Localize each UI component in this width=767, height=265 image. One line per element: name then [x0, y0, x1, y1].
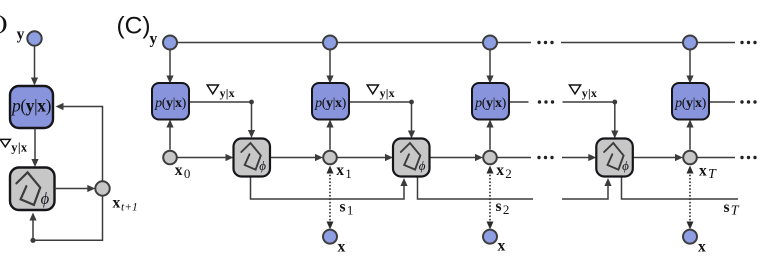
svg-text:x: x: [698, 238, 706, 255]
svg-text:p(y|x): p(y|x): [674, 96, 707, 111]
svg-text:xT: xT: [699, 163, 717, 183]
svg-text:y|x: y|x: [11, 141, 28, 155]
svg-text:y|x: y|x: [582, 86, 597, 100]
svg-text:p(y|x): p(y|x): [314, 96, 347, 111]
svg-text:y|x: y|x: [380, 86, 395, 100]
svg-text:y: y: [17, 26, 25, 43]
svg-text:s1: s1: [340, 199, 354, 218]
svg-text:): ): [0, 10, 8, 34]
svg-text:x: x: [498, 237, 506, 254]
svg-text:s2: s2: [496, 198, 510, 217]
svg-text:x1: x1: [336, 162, 352, 181]
svg-text:p(y|x): p(y|x): [10, 96, 52, 116]
svg-text:(C): (C): [117, 12, 151, 39]
svg-text:ϕ: ϕ: [419, 158, 426, 173]
svg-text:p(y|x): p(y|x): [154, 96, 187, 111]
svg-text:p(y|x): p(y|x): [474, 96, 507, 111]
svg-text:sT: sT: [724, 199, 740, 219]
svg-text:y|x: y|x: [220, 86, 235, 100]
svg-text:x: x: [338, 238, 346, 255]
svg-text:ϕ: ϕ: [41, 189, 50, 208]
svg-text:y: y: [150, 31, 158, 48]
svg-text:x0: x0: [175, 162, 191, 181]
svg-text:ϕ: ϕ: [622, 158, 629, 173]
svg-text:xt+1: xt+1: [113, 194, 138, 213]
svg-text:ϕ: ϕ: [259, 158, 266, 173]
svg-text:x2: x2: [496, 162, 512, 181]
